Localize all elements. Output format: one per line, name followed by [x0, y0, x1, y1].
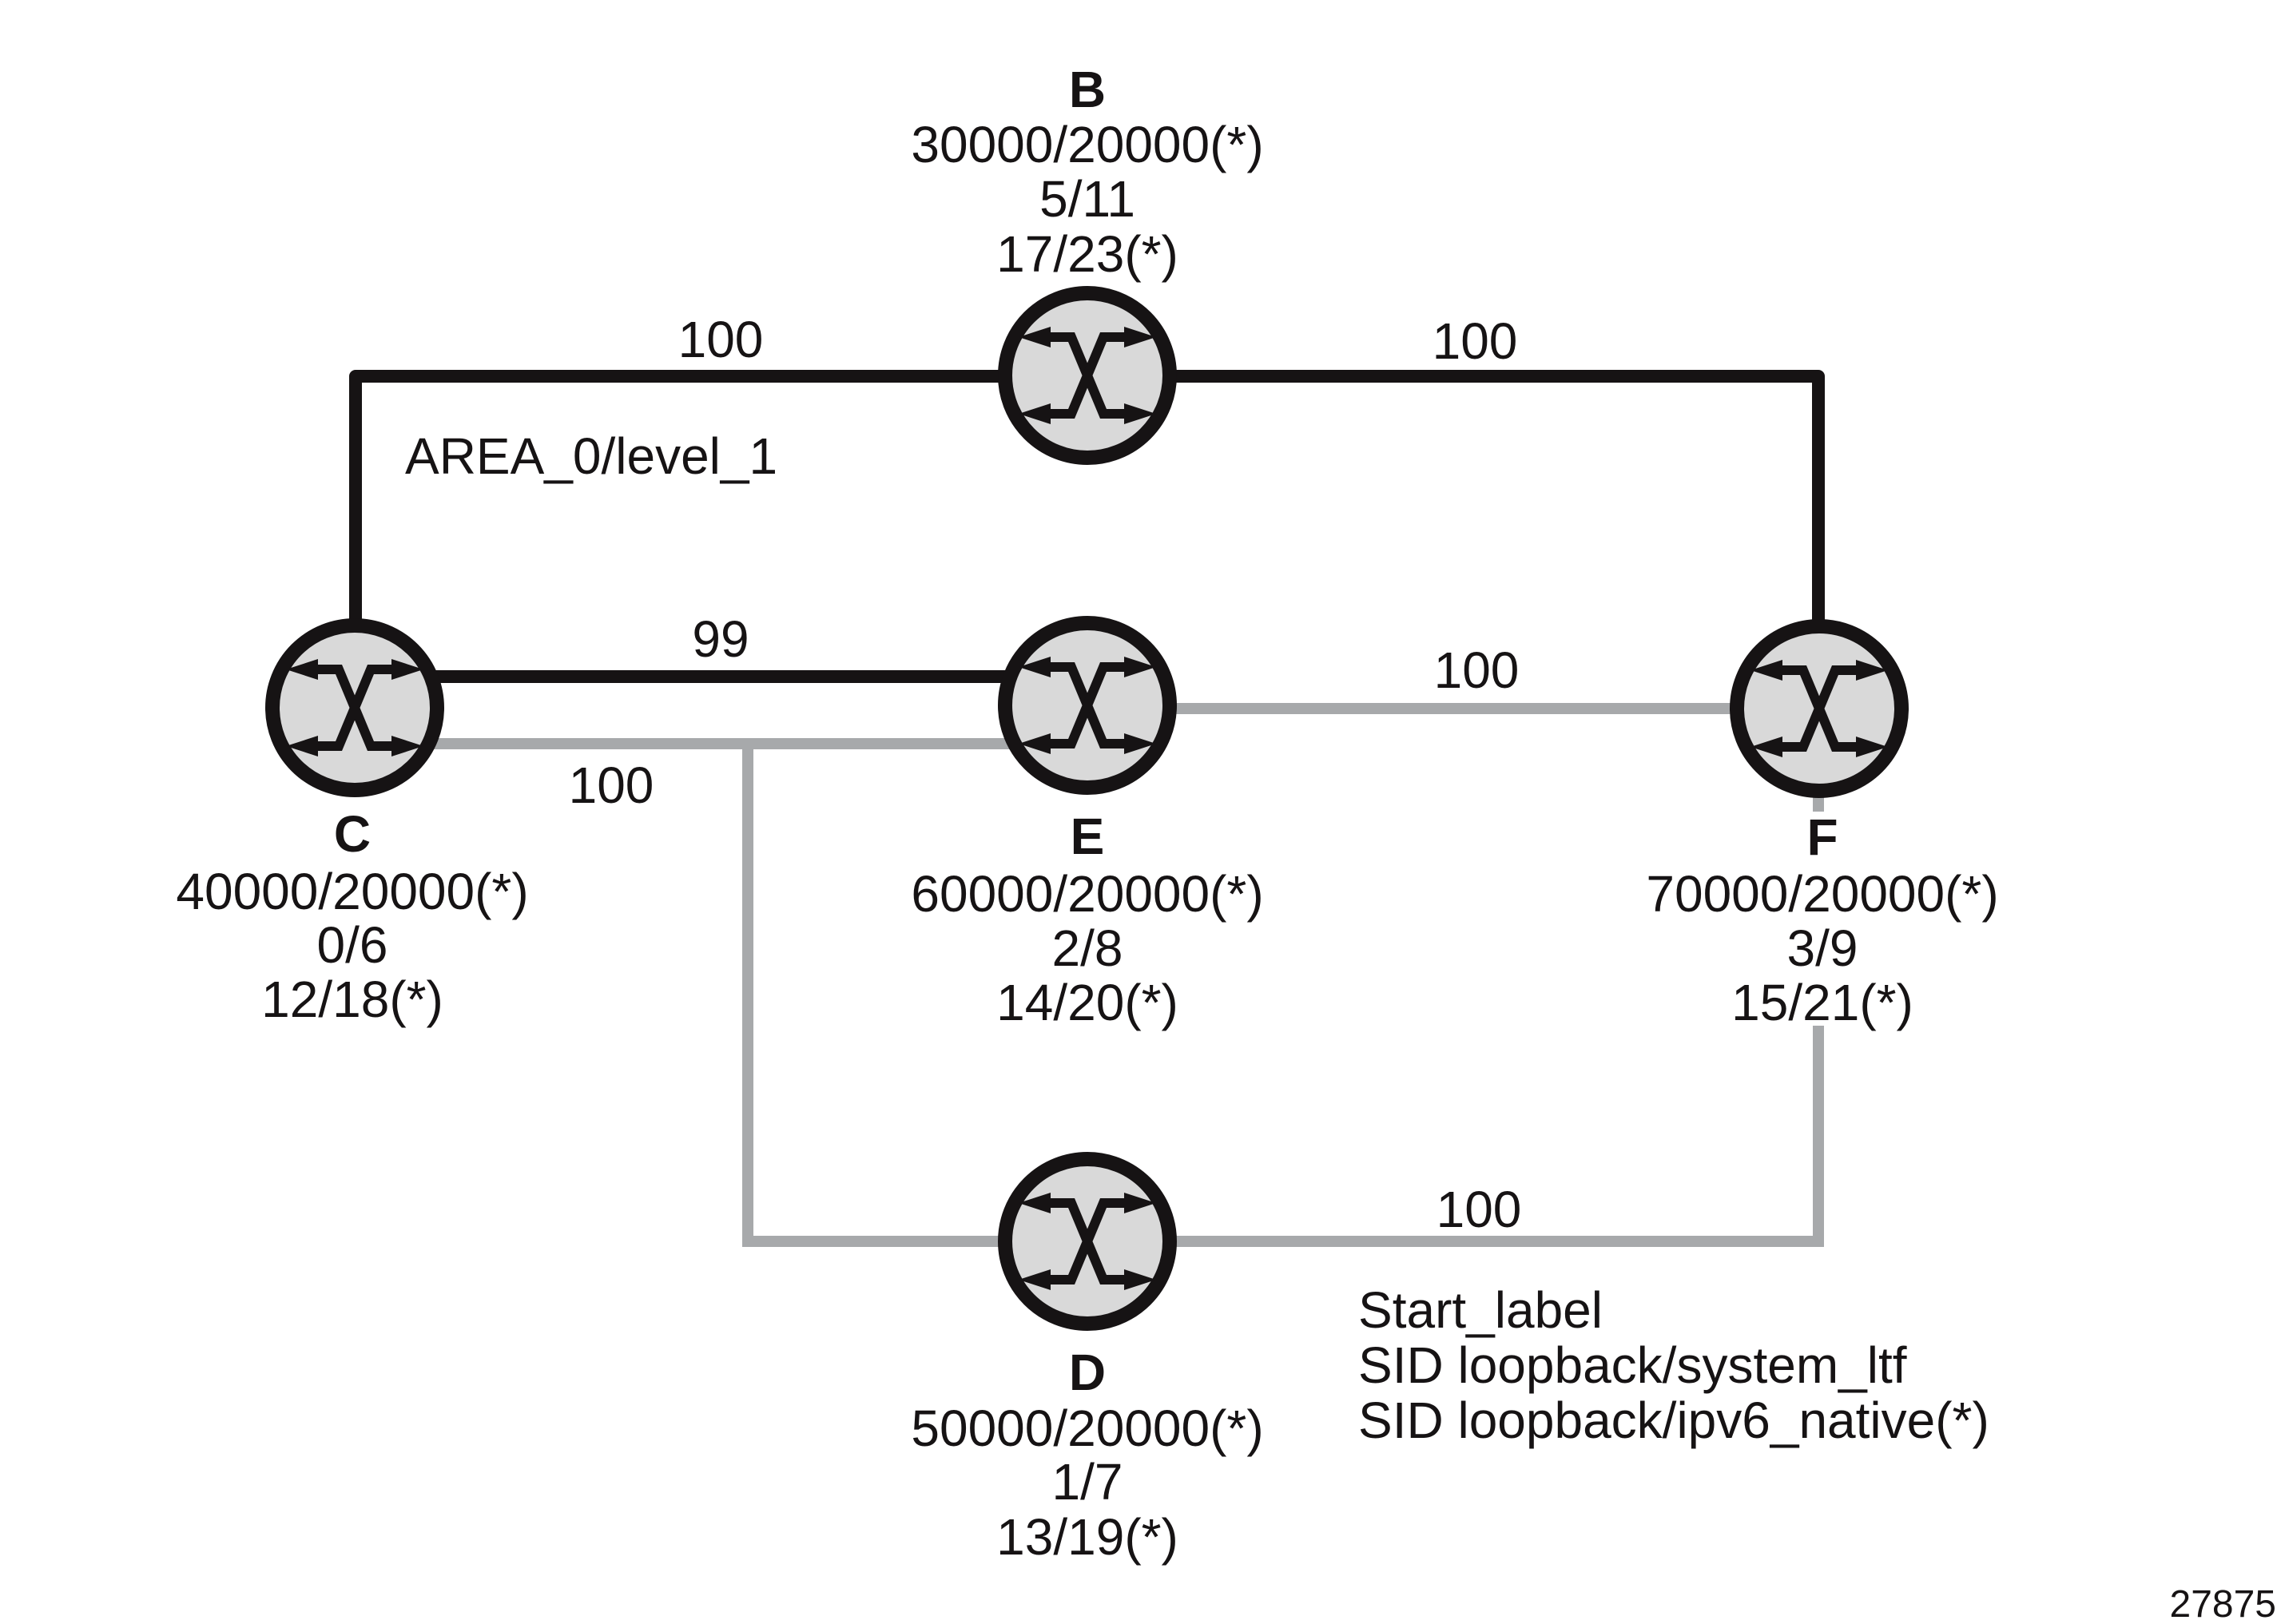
svg-text:100: 100 — [1437, 1181, 1522, 1238]
svg-text:50000/20000(*): 50000/20000(*) — [911, 1400, 1263, 1457]
wire C-E gray (lower topology) — [355, 738, 1087, 749]
svg-text:60000/20000(*): 60000/20000(*) — [911, 865, 1263, 923]
svg-text:17/23(*): 17/23(*) — [996, 225, 1178, 283]
svg-text:13/19(*): 13/19(*) — [996, 1508, 1178, 1566]
svg-text:5/11: 5/11 — [1039, 170, 1135, 228]
svg-text:100: 100 — [569, 756, 654, 814]
router D — [1005, 1159, 1170, 1324]
svg-text:14/20(*): 14/20(*) — [996, 974, 1178, 1031]
svg-text:E: E — [1071, 808, 1105, 865]
svg-text:30000/20000(*): 30000/20000(*) — [911, 116, 1263, 173]
svg-text:12/18(*): 12/18(*) — [261, 971, 443, 1028]
wire C-D gray (branch down from C-E gray, to D) — [748, 744, 1087, 1241]
svg-text:Start_label: Start_label — [1358, 1281, 1603, 1339]
router F — [1737, 626, 1901, 791]
svg-text:100: 100 — [678, 311, 764, 368]
router B — [1005, 293, 1170, 458]
svg-text:AREA_0/level_1: AREA_0/level_1 — [405, 427, 777, 485]
router E — [1005, 623, 1170, 788]
svg-text:99: 99 — [692, 610, 749, 668]
svg-text:SID loopback/system_ltf: SID loopback/system_ltf — [1358, 1336, 1907, 1394]
svg-text:40000/20000(*): 40000/20000(*) — [176, 863, 528, 920]
wire E-F gray — [1087, 703, 1819, 714]
svg-text:3/9: 3/9 — [1787, 919, 1858, 977]
svg-text:70000/20000(*): 70000/20000(*) — [1646, 865, 1998, 923]
svg-text:27875: 27875 — [2170, 1583, 2276, 1624]
svg-text:SID loopback/ipv6_native(*): SID loopback/ipv6_native(*) — [1358, 1392, 1989, 1449]
svg-text:F: F — [1806, 808, 1838, 866]
wire C-B-F (black: C up, across top, down to F) — [356, 376, 1818, 709]
svg-text:100: 100 — [1434, 641, 1520, 699]
svg-text:C: C — [334, 805, 371, 863]
svg-text:D: D — [1069, 1344, 1106, 1401]
router C — [272, 625, 437, 790]
svg-text:B: B — [1069, 61, 1106, 118]
wire D-F gray (right, then up to F with gap behind F labels) — [1087, 1026, 1818, 1241]
svg-text:15/21(*): 15/21(*) — [1731, 974, 1913, 1031]
svg-text:100: 100 — [1433, 312, 1518, 370]
svg-text:2/8: 2/8 — [1052, 919, 1123, 977]
wire C-E (black, metric 99) — [355, 670, 1087, 683]
wire D-F gray stub below F — [1813, 797, 1824, 812]
svg-text:0/6: 0/6 — [317, 916, 388, 974]
svg-text:1/7: 1/7 — [1052, 1453, 1123, 1511]
